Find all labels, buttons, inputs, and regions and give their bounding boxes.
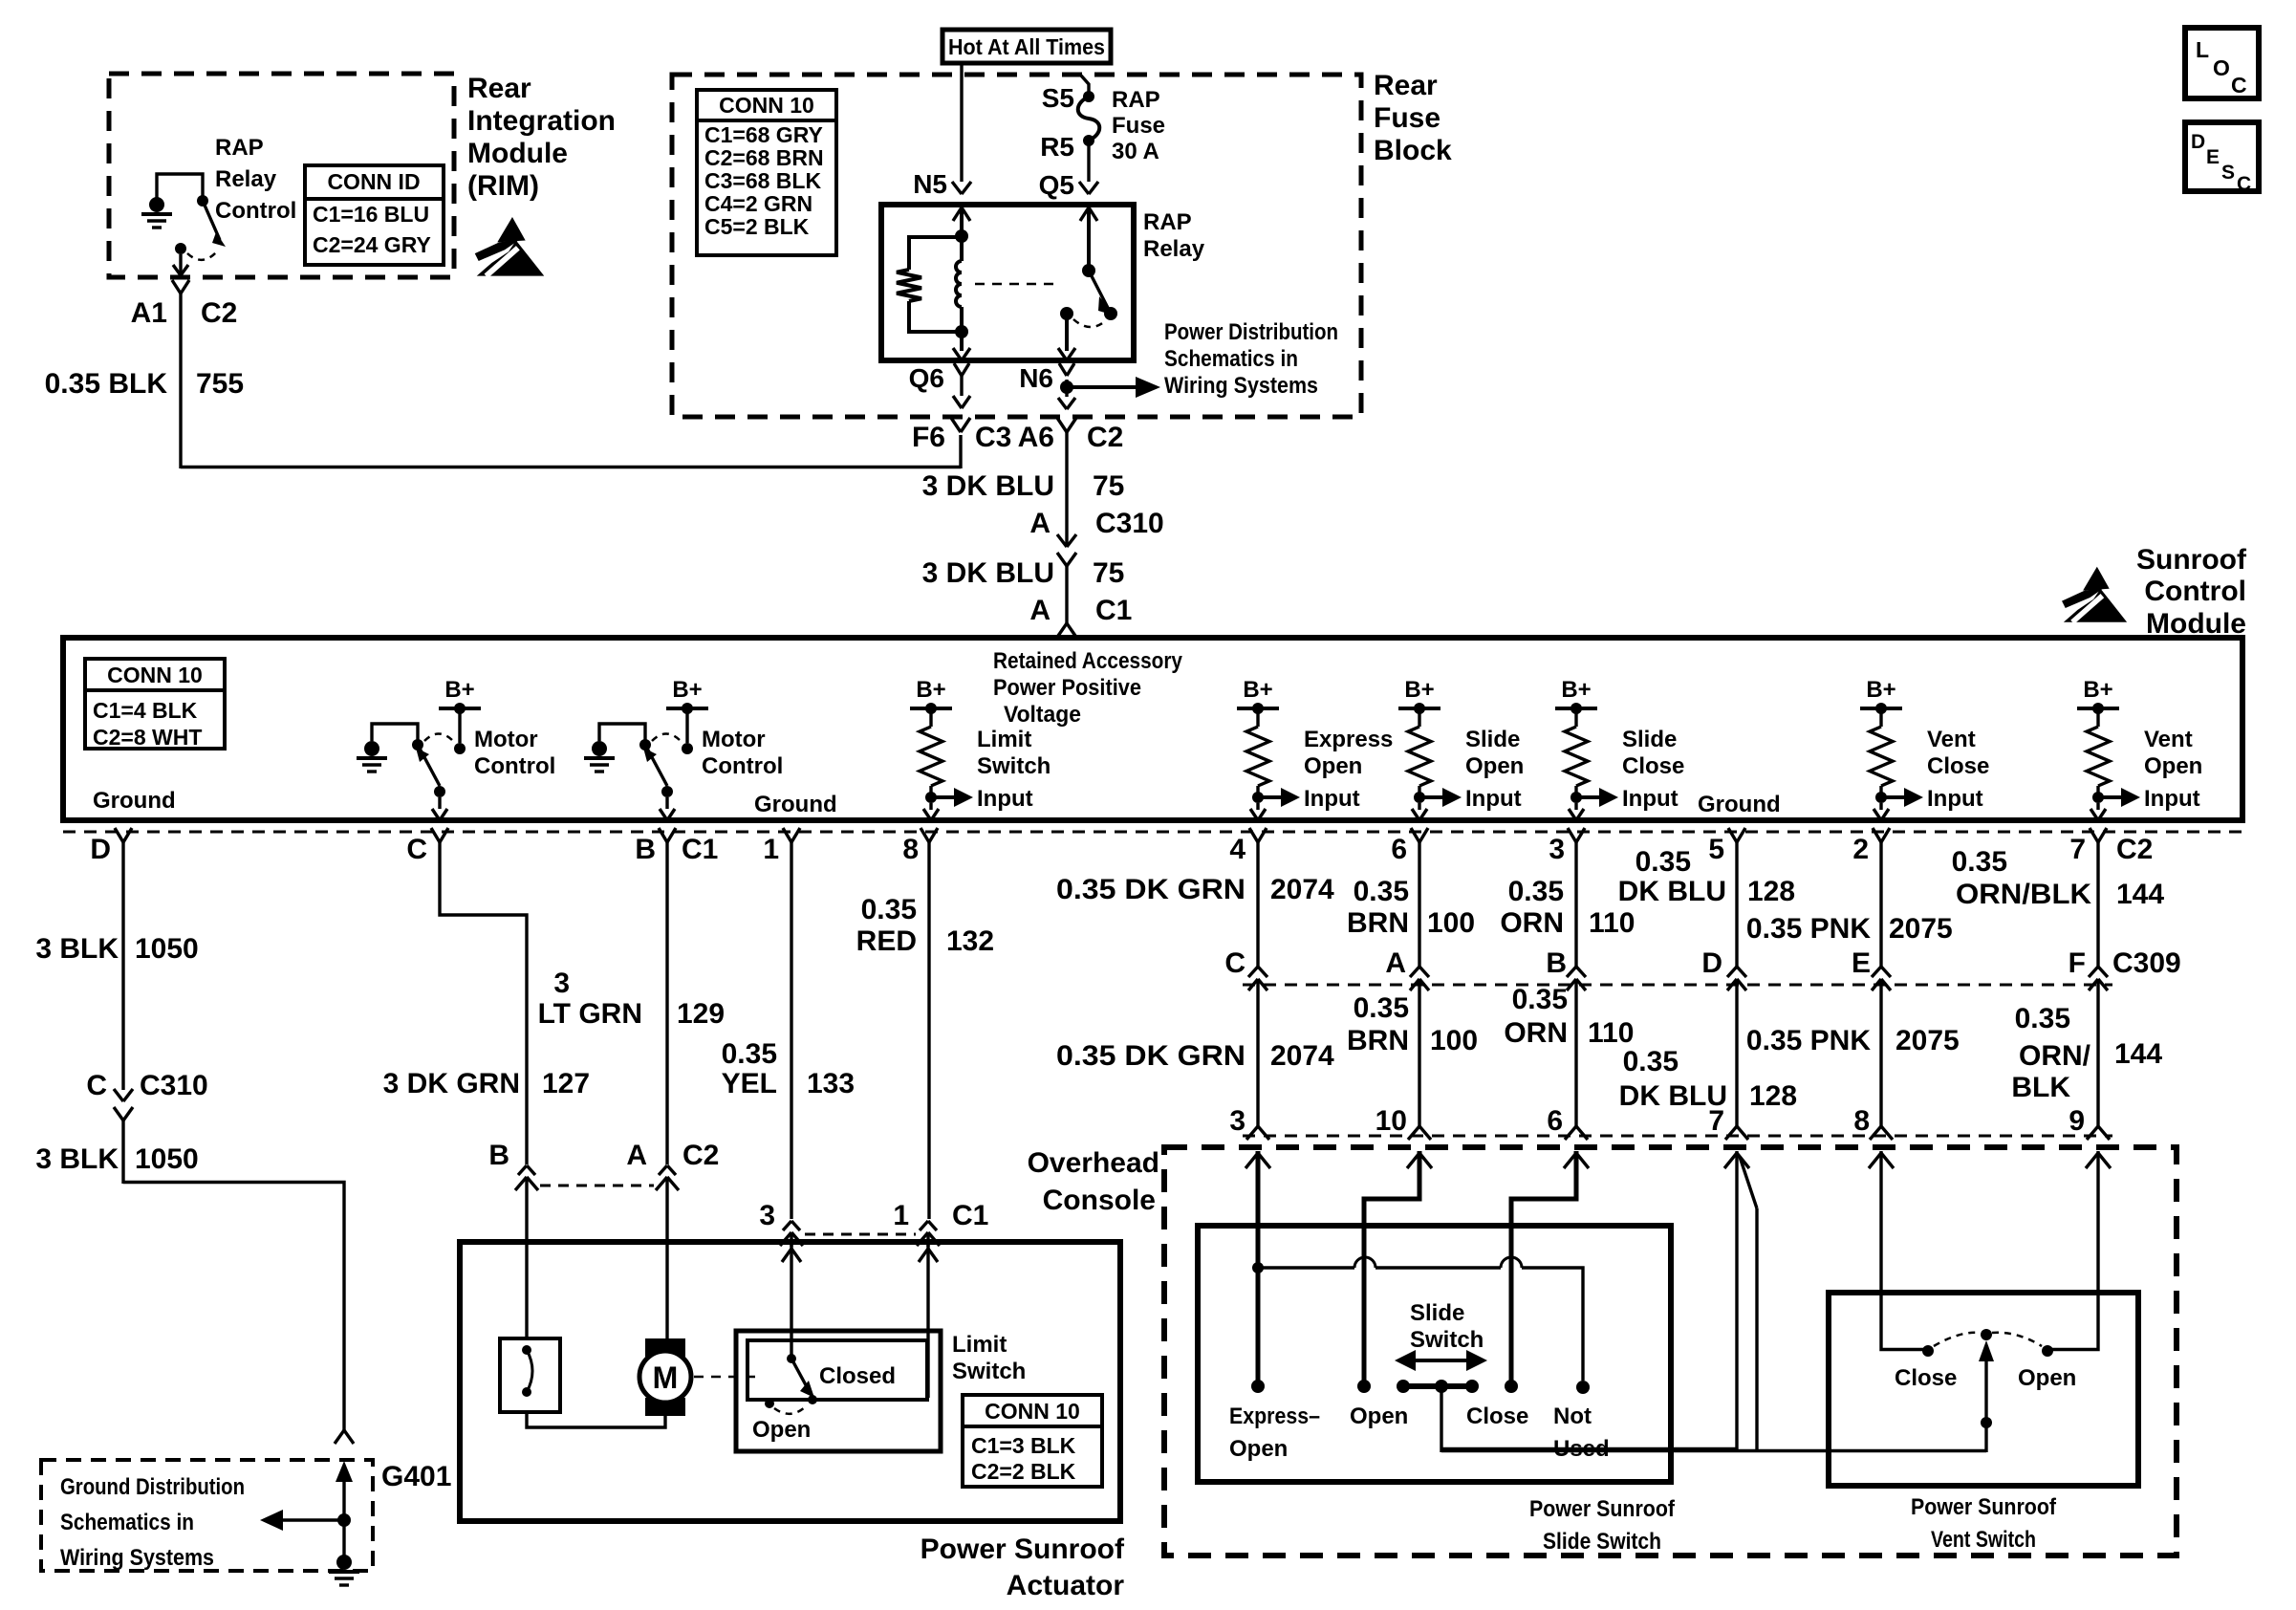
svg-text:C1=16 BLU: C1=16 BLU xyxy=(313,202,429,227)
svg-text:Voltage: Voltage xyxy=(1004,702,1081,728)
svg-text:1: 1 xyxy=(893,1200,909,1231)
svg-text:G401: G401 xyxy=(381,1461,451,1492)
svg-text:4: 4 xyxy=(1229,834,1245,865)
svg-text:6: 6 xyxy=(1391,834,1407,865)
svg-text:Close: Close xyxy=(1895,1365,1957,1391)
svg-text:Open: Open xyxy=(1465,753,1524,779)
svg-text:75: 75 xyxy=(1093,557,1124,589)
svg-text:B+: B+ xyxy=(2083,677,2112,703)
svg-text:Power Sunroof: Power Sunroof xyxy=(1529,1496,1676,1522)
console connector dashed line xyxy=(1243,1135,2112,1138)
RAP fuse S5-R5 xyxy=(1081,76,1089,97)
svg-text:B+: B+ xyxy=(1243,677,1272,703)
svg-text:Schematics in: Schematics in xyxy=(1164,346,1298,372)
svg-text:0.35: 0.35 xyxy=(861,894,917,925)
svg-text:75: 75 xyxy=(1093,470,1124,502)
svg-text:RAP: RAP xyxy=(1143,209,1192,235)
slide switch bus wire xyxy=(1258,1266,1354,1269)
svg-text:Console: Console xyxy=(1043,1185,1156,1216)
svg-text:128: 128 xyxy=(1749,1080,1797,1112)
svg-text:1050: 1050 xyxy=(135,1143,199,1175)
CONN 10 table (module) xyxy=(85,659,225,749)
svg-text:ORN: ORN xyxy=(1500,907,1564,939)
svg-text:Open: Open xyxy=(2018,1365,2076,1391)
svg-text:Close: Close xyxy=(1927,753,1989,779)
fuse block pin N6 xyxy=(1059,363,1067,376)
svg-text:C1: C1 xyxy=(1095,595,1132,626)
svg-text:C310: C310 xyxy=(1095,508,1164,539)
svg-text:Q5: Q5 xyxy=(1039,170,1074,200)
console wire pin 6 close xyxy=(1511,1151,1576,1381)
svg-text:Rear: Rear xyxy=(467,73,531,104)
limit switch contacts xyxy=(787,1354,796,1363)
svg-text:Actuator: Actuator xyxy=(1007,1570,1125,1601)
connector C1 actuator xyxy=(783,1221,791,1230)
svg-text:Open: Open xyxy=(1350,1403,1408,1429)
Power Sunroof Slide Switch box xyxy=(1198,1226,1671,1482)
console wire pin 8 vent close xyxy=(1881,1151,1928,1350)
svg-text:B+: B+ xyxy=(1404,677,1434,703)
svg-text:L: L xyxy=(2196,37,2209,62)
svg-text:C2: C2 xyxy=(201,297,237,329)
svg-text:Wiring Systems: Wiring Systems xyxy=(60,1545,214,1571)
svg-text:Schematics in: Schematics in xyxy=(60,1510,194,1535)
svg-text:CONN ID: CONN ID xyxy=(327,169,420,194)
svg-text:110: 110 xyxy=(1589,907,1635,939)
svg-text:Close: Close xyxy=(1622,753,1684,779)
Hot At All Times box xyxy=(942,30,1111,63)
svg-text:C4=2 GRN: C4=2 GRN xyxy=(704,191,812,216)
svg-text:7: 7 xyxy=(1708,1105,1724,1137)
slide switch double arrow xyxy=(1413,1359,1469,1362)
svg-text:C3: C3 xyxy=(975,422,1011,453)
svg-text:2074: 2074 xyxy=(1270,874,1334,905)
svg-text:S5: S5 xyxy=(1042,83,1074,113)
svg-text:Vent: Vent xyxy=(1927,727,1976,752)
svg-text:Motor: Motor xyxy=(702,727,766,752)
svg-text:C2=68 BRN: C2=68 BRN xyxy=(704,145,824,170)
svg-text:127: 127 xyxy=(542,1068,590,1099)
relay switch xyxy=(1080,207,1089,221)
ESD symbol (sunroof module) xyxy=(2083,567,2110,591)
svg-text:N6: N6 xyxy=(1019,363,1053,393)
svg-text:ORN: ORN xyxy=(1504,1017,1568,1049)
svg-text:0.35: 0.35 xyxy=(1635,846,1691,878)
fuse block pin Q6 xyxy=(954,363,962,376)
connector A6/C2 xyxy=(1057,418,1067,432)
wire A1 to F6 horizontal run xyxy=(181,466,961,468)
svg-text:Relay: Relay xyxy=(215,166,277,192)
svg-text:F6: F6 xyxy=(912,422,945,453)
wire 3 DK GRN 127 pin C xyxy=(440,842,527,1164)
svg-text:3 DK GRN: 3 DK GRN xyxy=(383,1068,520,1099)
svg-text:Module: Module xyxy=(467,138,568,169)
svg-text:Limit: Limit xyxy=(977,727,1031,752)
svg-text:ORN/BLK: ORN/BLK xyxy=(1956,879,2091,910)
svg-text:A: A xyxy=(1029,508,1051,539)
DESC legend box xyxy=(2185,122,2259,191)
svg-text:Relay: Relay xyxy=(1143,236,1205,262)
svg-text:9: 9 xyxy=(2069,1105,2085,1137)
connector F6/C3 xyxy=(951,418,961,432)
console connector forks xyxy=(1246,1126,1258,1140)
svg-text:Control: Control xyxy=(474,753,555,779)
relay coil branch xyxy=(953,207,962,221)
svg-text:100: 100 xyxy=(1430,1025,1478,1056)
svg-text:Ground: Ground xyxy=(754,792,837,817)
svg-text:133: 133 xyxy=(807,1068,855,1099)
svg-text:B+: B+ xyxy=(1866,677,1895,703)
svg-text:Ground Distribution: Ground Distribution xyxy=(60,1474,245,1500)
svg-text:A: A xyxy=(1385,947,1406,979)
wire 3 DK BLU 75 lower xyxy=(1065,566,1068,626)
svg-text:ORN/: ORN/ xyxy=(2019,1040,2091,1072)
svg-text:2: 2 xyxy=(1852,834,1869,865)
svg-text:E: E xyxy=(2206,146,2220,168)
RAP Relay Control switch in RIM xyxy=(149,197,164,212)
Sunroof Control Module box xyxy=(63,638,2242,820)
slide switch slider bar xyxy=(1403,1383,1472,1389)
svg-text:Open: Open xyxy=(1304,753,1362,779)
svg-text:0.35: 0.35 xyxy=(1354,876,1409,907)
svg-text:BLK: BLK xyxy=(2011,1072,2070,1103)
svg-text:Close: Close xyxy=(1466,1403,1528,1429)
limit switch wires xyxy=(790,1245,792,1249)
relay coil xyxy=(960,236,964,261)
module pin forks xyxy=(115,828,123,842)
svg-text:Fuse: Fuse xyxy=(1112,113,1165,139)
svg-text:Power Distribution: Power Distribution xyxy=(1164,319,1338,345)
svg-text:110: 110 xyxy=(1588,1017,1634,1049)
svg-text:Power Positive: Power Positive xyxy=(993,675,1141,701)
svg-text:C5=2 BLK: C5=2 BLK xyxy=(704,214,810,239)
svg-text:132: 132 xyxy=(946,925,994,957)
svg-text:144: 144 xyxy=(2114,1038,2162,1070)
svg-text:Power Sunroof: Power Sunroof xyxy=(1911,1494,2057,1520)
svg-text:Power Sunroof: Power Sunroof xyxy=(921,1534,1125,1565)
svg-text:C: C xyxy=(86,1070,107,1101)
connector C309 pin symbols xyxy=(1248,967,1258,977)
svg-text:Wiring Systems: Wiring Systems xyxy=(1164,373,1318,399)
console wire pin 10 open xyxy=(1364,1151,1419,1381)
svg-text:Rear: Rear xyxy=(1374,70,1438,101)
svg-text:C2=24 GRY: C2=24 GRY xyxy=(313,232,431,257)
svg-text:C: C xyxy=(1224,947,1245,979)
svg-text:Switch: Switch xyxy=(952,1359,1026,1384)
svg-text:Used: Used xyxy=(1553,1436,1610,1462)
svg-text:CONN 10: CONN 10 xyxy=(719,93,814,118)
svg-text:0.35: 0.35 xyxy=(1952,846,2007,878)
wire 0.35 RED 132 pin 8 xyxy=(927,842,930,1219)
svg-text:A6: A6 xyxy=(1018,422,1054,453)
svg-text:Input: Input xyxy=(2144,786,2200,812)
svg-text:C1=4 BLK: C1=4 BLK xyxy=(93,698,198,723)
svg-text:Input: Input xyxy=(1465,786,1522,812)
wire RIM switch to connector xyxy=(179,254,182,273)
svg-text:LT GRN: LT GRN xyxy=(538,998,642,1030)
module connector C1/C2 dashed line xyxy=(63,831,2242,834)
svg-text:7: 7 xyxy=(2069,834,2086,865)
svg-text:C1: C1 xyxy=(952,1200,988,1231)
svg-text:Block: Block xyxy=(1374,135,1452,166)
svg-text:YEL: YEL xyxy=(722,1068,777,1099)
svg-text:BRN: BRN xyxy=(1347,1025,1409,1056)
svg-text:RAP: RAP xyxy=(215,135,264,161)
svg-text:0.35: 0.35 xyxy=(2015,1003,2070,1034)
svg-text:6: 6 xyxy=(1547,1105,1563,1137)
svg-text:0.35: 0.35 xyxy=(1623,1046,1679,1077)
svg-text:Input: Input xyxy=(1622,786,1679,812)
svg-text:Retained Accessory: Retained Accessory xyxy=(993,648,1183,674)
svg-text:Slide: Slide xyxy=(1465,727,1520,752)
svg-text:Ground: Ground xyxy=(1698,792,1781,817)
svg-text:30 A: 30 A xyxy=(1112,139,1159,164)
svg-text:Open: Open xyxy=(752,1417,811,1443)
svg-text:Slide: Slide xyxy=(1622,727,1677,752)
connector A1/C2 under RIM xyxy=(172,280,181,294)
svg-text:R5: R5 xyxy=(1040,132,1074,162)
svg-text:O: O xyxy=(2213,55,2230,80)
svg-text:10: 10 xyxy=(1375,1105,1407,1137)
svg-text:8: 8 xyxy=(1853,1105,1870,1137)
connector C2 actuator xyxy=(518,1165,527,1175)
svg-text:C1=68 GRY: C1=68 GRY xyxy=(704,122,823,147)
svg-text:D: D xyxy=(1701,947,1722,979)
svg-text:CONN 10: CONN 10 xyxy=(107,663,203,687)
svg-text:0.35 BLK: 0.35 BLK xyxy=(45,368,168,400)
svg-text:C2=2 BLK: C2=2 BLK xyxy=(971,1459,1076,1484)
svg-text:3: 3 xyxy=(759,1200,775,1231)
wire N5 from Hot At All Times xyxy=(960,63,963,182)
svg-text:3 BLK: 3 BLK xyxy=(35,933,119,965)
svg-text:A: A xyxy=(626,1140,647,1171)
svg-text:Switch: Switch xyxy=(977,753,1051,779)
limit switch inner box xyxy=(747,1340,927,1400)
limit switch outer box xyxy=(736,1331,941,1451)
svg-text:0.35 PNK: 0.35 PNK xyxy=(1746,913,1871,945)
svg-text:3 DK BLU: 3 DK BLU xyxy=(922,557,1054,589)
svg-text:Overhead: Overhead xyxy=(1028,1147,1159,1179)
Rear Integration Module (RIM) dashed box xyxy=(109,74,454,277)
wire 3 LT GRN 129 pin B xyxy=(665,842,668,1164)
svg-text:C: C xyxy=(2237,173,2251,195)
svg-text:F: F xyxy=(2069,947,2086,979)
RAP Relay box xyxy=(881,205,1134,360)
svg-text:B: B xyxy=(488,1140,509,1171)
svg-text:Limit: Limit xyxy=(952,1332,1007,1358)
CONN 10 table (fuse block) xyxy=(697,90,836,255)
svg-text:0.35 DK GRN: 0.35 DK GRN xyxy=(1056,1040,1245,1072)
svg-text:Fuse: Fuse xyxy=(1374,102,1440,134)
svg-text:B+: B+ xyxy=(672,677,702,703)
svg-text:129: 129 xyxy=(677,998,725,1030)
CONN 10 table (actuator) xyxy=(963,1395,1102,1487)
svg-text:C2: C2 xyxy=(2116,834,2153,865)
svg-text:D: D xyxy=(90,834,111,865)
svg-text:M: M xyxy=(653,1360,679,1395)
svg-text:3: 3 xyxy=(1229,1105,1245,1137)
svg-text:2075: 2075 xyxy=(1895,1025,1960,1056)
console wire pin 7 commons xyxy=(1735,1151,1738,1450)
relay dashed actuation link xyxy=(975,283,1057,286)
connector C309 dashed line xyxy=(1243,984,2112,987)
svg-text:0.35: 0.35 xyxy=(1508,876,1564,907)
svg-text:0.35 DK GRN: 0.35 DK GRN xyxy=(1056,874,1245,905)
svg-text:C2: C2 xyxy=(682,1140,719,1171)
svg-text:Vent Switch: Vent Switch xyxy=(1931,1527,2036,1553)
wire to motor xyxy=(665,1245,668,1338)
svg-text:RAP: RAP xyxy=(1112,87,1160,113)
svg-text:0.35 PNK: 0.35 PNK xyxy=(1746,1025,1871,1056)
inline connector C310 xyxy=(1057,534,1067,547)
svg-text:1050: 1050 xyxy=(135,933,199,965)
svg-text:S: S xyxy=(2221,162,2235,184)
svg-text:144: 144 xyxy=(2116,879,2164,910)
svg-text:E: E xyxy=(1852,947,1871,979)
svg-text:Input: Input xyxy=(1304,786,1360,812)
svg-text:RED: RED xyxy=(856,925,917,957)
svg-text:BRN: BRN xyxy=(1347,907,1409,939)
CONN ID table (RIM) xyxy=(305,165,444,265)
svg-text:1: 1 xyxy=(763,834,779,865)
wire to clutch xyxy=(525,1245,528,1340)
svg-text:0.35: 0.35 xyxy=(722,1038,777,1070)
wires module pins 4,6,3,5,2,7 to C309 xyxy=(1256,842,1259,968)
svg-text:C2: C2 xyxy=(1087,422,1123,453)
svg-text:C3=68 BLK: C3=68 BLK xyxy=(704,168,821,193)
svg-text:3: 3 xyxy=(553,968,570,999)
svg-text:C310: C310 xyxy=(140,1070,208,1101)
wire 3 DK BLU 75 upper xyxy=(1065,432,1068,547)
Ground Distribution dashed box xyxy=(41,1460,373,1571)
svg-text:Control: Control xyxy=(2144,576,2246,607)
ESD symbol (RIM) xyxy=(497,217,525,242)
svg-text:Q6: Q6 xyxy=(909,363,944,393)
wire 0.35 YEL 133 pin 1 xyxy=(790,842,792,1219)
svg-text:Switch: Switch xyxy=(1410,1327,1484,1353)
svg-text:0.35: 0.35 xyxy=(1354,992,1409,1024)
svg-text:C309: C309 xyxy=(2112,947,2181,979)
svg-text:Input: Input xyxy=(1927,786,1983,812)
ground G401 xyxy=(342,1466,345,1518)
svg-text:Sunroof: Sunroof xyxy=(2136,544,2247,576)
svg-text:Express–: Express– xyxy=(1229,1403,1320,1429)
inline connector C310 left xyxy=(114,1089,123,1101)
clutch xyxy=(500,1338,560,1412)
svg-text:DK BLU: DK BLU xyxy=(1618,876,1726,907)
svg-text:D: D xyxy=(2191,131,2205,153)
motor M xyxy=(645,1338,685,1357)
svg-text:3: 3 xyxy=(1549,834,1565,865)
dashed link motor to limit switch xyxy=(694,1376,755,1379)
svg-text:Open: Open xyxy=(1229,1436,1288,1462)
svg-text:Ground: Ground xyxy=(93,788,176,814)
LOC legend box xyxy=(2185,28,2259,98)
svg-text:C: C xyxy=(2231,73,2247,98)
svg-text:Integration: Integration xyxy=(467,105,616,137)
svg-text:B: B xyxy=(1546,947,1567,979)
arrow N6 to wiring systems xyxy=(1067,385,1139,389)
svg-text:2075: 2075 xyxy=(1889,913,1953,945)
svg-text:8: 8 xyxy=(902,834,919,865)
svg-text:755: 755 xyxy=(196,368,244,400)
svg-text:Express: Express xyxy=(1304,727,1393,752)
svg-text:N5: N5 xyxy=(913,169,947,199)
Power Sunroof Vent Switch box xyxy=(1829,1293,2138,1486)
svg-text:C1=3 BLK: C1=3 BLK xyxy=(971,1433,1076,1458)
Rear Fuse Block dashed box xyxy=(672,75,1361,417)
Power Sunroof Actuator box xyxy=(460,1242,1120,1521)
svg-text:128: 128 xyxy=(1747,876,1795,907)
svg-text:2074: 2074 xyxy=(1270,1040,1334,1072)
svg-text:100: 100 xyxy=(1427,907,1475,939)
vent switch contacts xyxy=(1922,1345,1934,1357)
svg-text:Slide: Slide xyxy=(1410,1300,1464,1326)
vent switch actuator arrow xyxy=(1984,1352,1987,1423)
svg-text:B: B xyxy=(635,834,656,865)
wire 3 BLK 1050 to G401 xyxy=(121,1120,124,1184)
svg-text:B+: B+ xyxy=(916,677,945,703)
svg-text:0.35: 0.35 xyxy=(1512,984,1568,1015)
wire 3 BLK 1050 pin D xyxy=(121,842,124,1090)
console wire pin 9 vent open xyxy=(2047,1151,2098,1350)
svg-text:A1: A1 xyxy=(131,297,167,329)
svg-text:Slide Switch: Slide Switch xyxy=(1543,1529,1661,1555)
relay resistor xyxy=(897,270,921,301)
svg-text:Closed: Closed xyxy=(819,1363,896,1389)
connector at G401 xyxy=(335,1430,344,1444)
svg-text:A: A xyxy=(1029,595,1051,626)
svg-text:Not: Not xyxy=(1553,1403,1592,1429)
console wire pin 3 express open xyxy=(1256,1151,1261,1381)
svg-text:B+: B+ xyxy=(1561,677,1591,703)
svg-text:3 DK BLU: 3 DK BLU xyxy=(922,470,1054,502)
svg-text:B+: B+ xyxy=(444,677,474,703)
console pin arrows xyxy=(1245,1153,1258,1168)
svg-text:Vent: Vent xyxy=(2144,727,2193,752)
svg-text:Hot At All Times: Hot At All Times xyxy=(948,34,1105,59)
svg-text:Control: Control xyxy=(702,753,783,779)
Overhead Console dashed box xyxy=(1164,1147,2177,1556)
svg-text:(RIM): (RIM) xyxy=(467,170,539,202)
svg-text:5: 5 xyxy=(1708,834,1724,865)
svg-text:Input: Input xyxy=(977,786,1033,812)
svg-text:3 BLK: 3 BLK xyxy=(35,1143,119,1175)
svg-text:Motor: Motor xyxy=(474,727,538,752)
svg-text:C2=8 WHT: C2=8 WHT xyxy=(93,725,202,750)
svg-text:Control: Control xyxy=(215,198,296,224)
wire 0.35 BLK 755 xyxy=(179,294,182,468)
svg-text:Open: Open xyxy=(2144,753,2202,779)
svg-text:CONN 10: CONN 10 xyxy=(985,1399,1080,1424)
svg-text:C: C xyxy=(406,834,427,865)
svg-text:C1: C1 xyxy=(682,834,718,865)
